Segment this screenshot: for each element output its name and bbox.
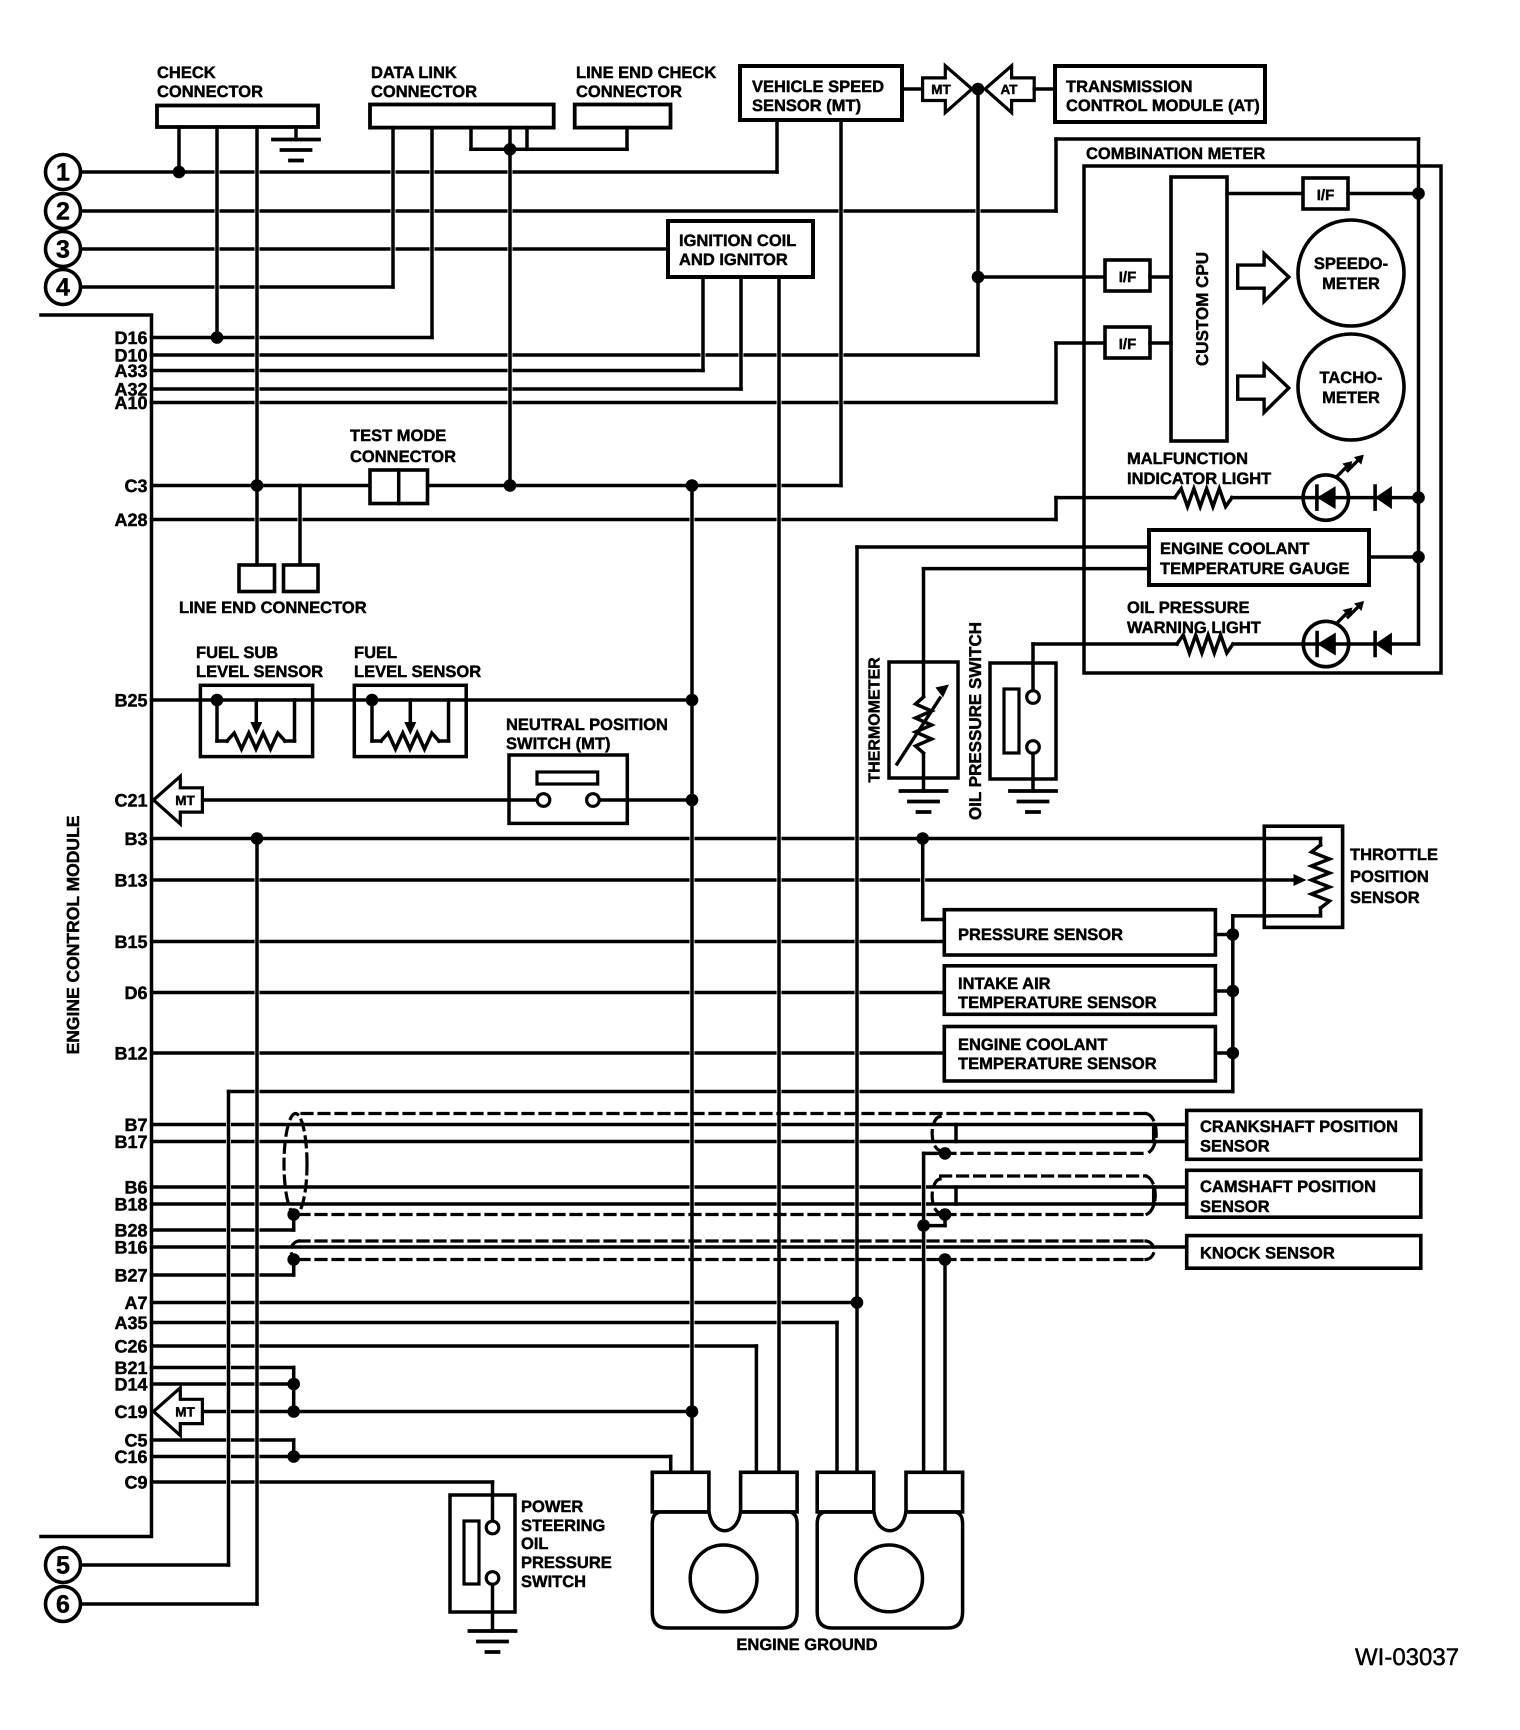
svg-text:CUSTOM CPU: CUSTOM CPU xyxy=(1193,252,1212,366)
component SPEEDOMETER xyxy=(1298,220,1404,326)
svg-text:KNOCK SENSOR: KNOCK SENSOR xyxy=(1200,1245,1335,1263)
wire A10 riser xyxy=(1054,343,1058,403)
component VEHICLE SPEED SENSOR (MT) xyxy=(740,66,902,120)
junction knock shield xyxy=(939,1253,952,1266)
wire B6 xyxy=(152,1185,1187,1189)
pair bar crank right xyxy=(1152,1125,1156,1142)
connector DATA LINK CONNECTOR xyxy=(370,105,554,128)
wire ign pin2 xyxy=(739,277,743,389)
svg-text:B15: B15 xyxy=(114,932,147,952)
wire pressure right stub xyxy=(1215,933,1232,937)
junction C3/ground-chain xyxy=(686,479,699,492)
wire dlc pin3 xyxy=(469,128,473,150)
wire check ground stub xyxy=(294,127,298,140)
connector LINE END 1 xyxy=(239,565,275,592)
arrow wiper (fuel level) xyxy=(409,700,413,722)
wire malfunction light xyxy=(1056,496,1175,500)
arrow wiper (fuel sub) xyxy=(255,700,259,722)
ground (check connector) xyxy=(273,140,319,161)
svg-text:C9: C9 xyxy=(124,1473,147,1493)
wire B15 xyxy=(152,940,945,944)
svg-text:SENSOR (MT): SENSOR (MT) xyxy=(752,97,861,115)
arrow AT (left) xyxy=(985,66,1034,113)
wire oil switch top xyxy=(1031,644,1035,691)
svg-text:TEMPERATURE SENSOR: TEMPERATURE SENSOR xyxy=(958,1055,1157,1073)
svg-text:MT: MT xyxy=(175,1405,195,1420)
terminal lug2 pinA xyxy=(817,1472,874,1512)
svg-text:MT: MT xyxy=(931,82,951,97)
wire shield-ground x=923.6 xyxy=(922,1153,926,1472)
junction fuel-sub input xyxy=(211,694,224,707)
wire B21 xyxy=(152,1366,294,1370)
arrow MT at C21 xyxy=(154,776,203,824)
component THROTTLE POSITION SENSOR box xyxy=(1264,826,1342,927)
wire D6 xyxy=(152,991,945,995)
svg-text:THERMOMETER: THERMOMETER xyxy=(867,657,884,783)
LED malfunction indicator xyxy=(1336,465,1348,477)
wire thermometer riser xyxy=(922,569,926,662)
svg-text:TACHO-: TACHO- xyxy=(1320,369,1383,387)
ENGINE CONTROL MODULE bracket xyxy=(41,315,152,1537)
shield knock bottom dashed xyxy=(299,1258,1146,1261)
pair bar cam right xyxy=(1152,1187,1156,1204)
wire C3 xyxy=(152,484,371,488)
svg-text:D6: D6 xyxy=(124,983,147,1003)
junction C3/dlc xyxy=(504,479,517,492)
svg-text:INDICATOR LIGHT: INDICATOR LIGHT xyxy=(1127,470,1271,488)
junction bus/malfunction xyxy=(1412,491,1425,504)
svg-text:WARNING LIGHT: WARNING LIGHT xyxy=(1127,619,1261,637)
wire if-top left xyxy=(1227,192,1303,196)
svg-text:CAMSHAFT POSITION: CAMSHAFT POSITION xyxy=(1200,1178,1376,1196)
wire tps bottom lead xyxy=(1319,908,1323,916)
resistor (fuel sub) xyxy=(227,733,285,749)
svg-text:B3: B3 xyxy=(124,829,147,849)
svg-text:A10: A10 xyxy=(114,393,147,413)
svg-text:2: 2 xyxy=(56,198,70,226)
component I/F 1 xyxy=(1105,260,1150,291)
node 1 circled xyxy=(46,155,81,190)
svg-text:SWITCH: SWITCH xyxy=(521,1573,586,1591)
engine ground lug 1 xyxy=(652,1512,797,1628)
wire net3 (y=249) xyxy=(81,247,668,251)
shield cam top dashed xyxy=(941,1174,1146,1177)
svg-text:MALFUNCTION: MALFUNCTION xyxy=(1127,450,1248,468)
svg-text:C26: C26 xyxy=(114,1337,147,1357)
diode (oil warning) xyxy=(1373,633,1377,656)
wire B12 xyxy=(152,1051,945,1055)
svg-text:SENSOR: SENSOR xyxy=(1200,1138,1270,1156)
component INTAKE AIR TEMPERATURE SENSOR xyxy=(944,966,1215,1015)
junction vss-if1 xyxy=(972,271,985,284)
junction bus/gauge xyxy=(1412,551,1425,564)
component CUSTOM CPU xyxy=(1171,177,1227,441)
junction C16/C5 xyxy=(287,1450,300,1463)
svg-text:B12: B12 xyxy=(114,1044,147,1064)
contact (oil switch top) xyxy=(1027,691,1040,704)
svg-text:WI-03037: WI-03037 xyxy=(1355,1644,1459,1671)
wire coolant right stub xyxy=(1215,1051,1232,1055)
wire vss pin2 xyxy=(839,120,843,486)
junction B3/branch xyxy=(916,832,929,845)
component FUEL LEVEL SENSOR xyxy=(354,685,466,756)
shield crank right arc xyxy=(1146,1114,1156,1154)
wire ps switch bottom xyxy=(491,1584,495,1631)
diode (malfunction) xyxy=(1375,486,1392,509)
wire gauge-ground chain x=857 xyxy=(855,547,859,1472)
svg-text:I/F: I/F xyxy=(1119,336,1137,353)
svg-text:I/F: I/F xyxy=(1317,187,1335,204)
svg-text:METER: METER xyxy=(1322,275,1380,293)
svg-text:OIL PRESSURE: OIL PRESSURE xyxy=(1127,599,1250,617)
svg-text:DATA LINK: DATA LINK xyxy=(371,64,457,82)
component ENGINE COOLANT TEMPERATURE SENSOR xyxy=(944,1027,1215,1082)
junction sensorbus/intake xyxy=(1227,985,1240,998)
wire dlc pin2 xyxy=(430,128,434,338)
wire B13 xyxy=(152,878,1293,882)
arrow to tachometer xyxy=(1238,365,1289,413)
svg-text:I/F: I/F xyxy=(1119,269,1137,286)
wire check pin1 xyxy=(177,127,181,172)
svg-text:LEVEL SENSOR: LEVEL SENSOR xyxy=(354,663,481,681)
component OIL PRESSURE SWITCH xyxy=(990,663,1056,779)
svg-text:A33: A33 xyxy=(114,361,147,381)
svg-text:TEST MODE: TEST MODE xyxy=(350,427,446,445)
LED malfunction indicator xyxy=(1354,455,1364,465)
svg-text:ENGINE CONTROL MODULE: ENGINE CONTROL MODULE xyxy=(63,816,83,1055)
svg-text:POWER: POWER xyxy=(521,1498,583,1516)
LED oil pressure warning xyxy=(1303,621,1348,666)
svg-text:SENSOR: SENSOR xyxy=(1200,1198,1270,1216)
wire A32 xyxy=(152,387,742,391)
wire B25 xyxy=(152,698,693,702)
junction D14/B21 xyxy=(287,1378,300,1391)
ground (thermometer) xyxy=(901,791,947,812)
arrow MT at C19 xyxy=(154,1388,203,1436)
connector CHECK CONNECTOR xyxy=(157,106,318,128)
resistor (oil warning light) xyxy=(1177,635,1233,653)
wire check pin2 xyxy=(215,127,219,338)
wire vss to MT arrow xyxy=(902,87,923,91)
wire if-top right xyxy=(1348,192,1419,196)
svg-text:LINE END CHECK: LINE END CHECK xyxy=(576,64,716,82)
terminal lug1 pinB xyxy=(741,1472,798,1512)
svg-text:CONNECTOR: CONNECTOR xyxy=(371,83,477,101)
LED malfunction indicator xyxy=(1303,475,1348,520)
wire A35 xyxy=(152,1321,838,1325)
svg-text:ENGINE COOLANT: ENGINE COOLANT xyxy=(958,1036,1107,1054)
shield knock left arc xyxy=(291,1241,299,1260)
wire if1 left xyxy=(978,275,1105,279)
box COMBINATION METER xyxy=(1084,166,1441,673)
component I/F top xyxy=(1303,178,1348,209)
wire net2 riser to meter xyxy=(1054,139,1058,211)
wire net5 riser xyxy=(227,1092,231,1566)
svg-text:C3: C3 xyxy=(124,476,147,496)
svg-text:IGNITION COIL: IGNITION COIL xyxy=(679,232,796,250)
junction bus/if-top xyxy=(1412,187,1425,200)
wire check pin3 xyxy=(255,127,259,565)
wire thermo internal bottom xyxy=(922,755,926,791)
component POWER STEERING OIL PRESSURE SWITCH xyxy=(450,1495,515,1612)
wire net5 feed y=1091.5 xyxy=(229,1090,1233,1094)
wire C26 xyxy=(152,1344,757,1348)
wire gauge right xyxy=(1369,555,1419,559)
component IGNITION COIL AND IGNITOR xyxy=(668,221,813,277)
svg-text:METER: METER xyxy=(1322,389,1380,407)
component CRANKSHAFT POSITION SENSOR xyxy=(1187,1110,1421,1159)
svg-text:AT: AT xyxy=(1001,82,1019,97)
junction C19/ground-chain xyxy=(686,1405,699,1418)
junction MT/AT xyxy=(972,83,985,96)
svg-text:AND IGNITOR: AND IGNITOR xyxy=(679,251,788,269)
wire A10 xyxy=(152,401,1057,405)
component NEUTRAL POSITION SWITCH xyxy=(509,755,627,823)
junction crank shield xyxy=(939,1147,952,1160)
svg-text:4: 4 xyxy=(56,274,70,302)
svg-text:SPEEDO-: SPEEDO- xyxy=(1314,255,1388,273)
junction B3/net6 xyxy=(251,832,264,845)
shield cam bottom dashed xyxy=(299,1213,1146,1216)
wire A28 xyxy=(152,518,1057,522)
svg-text:SENSOR: SENSOR xyxy=(1350,889,1420,907)
LED oil pressure warning xyxy=(1315,633,1319,656)
svg-text:INTAKE AIR: INTAKE AIR xyxy=(958,975,1051,993)
wire dlc pin5 xyxy=(525,128,529,150)
junction D16/check xyxy=(211,331,224,344)
arrow to speedometer xyxy=(1238,254,1289,302)
junction A7/gauge-chain xyxy=(851,1296,864,1309)
wire net1 (y=172) xyxy=(81,170,777,174)
svg-text:OIL PRESSURE SWITCH: OIL PRESSURE SWITCH xyxy=(966,622,985,820)
resistor (fuel level) xyxy=(381,733,439,749)
svg-text:FUEL: FUEL xyxy=(354,644,397,662)
svg-text:POSITION: POSITION xyxy=(1350,868,1429,886)
junction C19/B21 xyxy=(287,1405,300,1418)
svg-text:B13: B13 xyxy=(114,871,147,891)
LED malfunction indicator xyxy=(1348,459,1360,471)
arrow wiper (tps) xyxy=(1294,874,1307,886)
wire B27 xyxy=(152,1273,294,1277)
wire C19 xyxy=(202,1410,692,1414)
wire B7 xyxy=(152,1123,1187,1127)
wire C16 xyxy=(152,1455,671,1459)
wire C5 xyxy=(152,1438,294,1442)
wire line-end riser 2 xyxy=(298,486,302,566)
wire fuel-sub left leg xyxy=(215,700,219,741)
contact (ps top) xyxy=(486,1521,499,1534)
wire tps top lead xyxy=(1319,839,1323,846)
wire A33 xyxy=(152,369,704,373)
contact (neutral right) xyxy=(587,794,600,807)
wire net2 (y=211) xyxy=(81,209,1056,213)
component ENGINE COOLANT TEMPERATURE GAUGE xyxy=(1149,530,1369,585)
svg-text:1: 1 xyxy=(56,159,70,187)
svg-text:CRANKSHAFT POSITION: CRANKSHAFT POSITION xyxy=(1200,1118,1398,1136)
switch plate (neutral) xyxy=(537,772,598,784)
svg-text:OIL: OIL xyxy=(521,1535,549,1553)
connector LINE END 2 xyxy=(284,565,319,592)
junction B27 shield xyxy=(287,1253,300,1266)
svg-text:COMBINATION METER: COMBINATION METER xyxy=(1086,145,1265,163)
wire lecc pin xyxy=(625,128,629,150)
svg-text:B17: B17 xyxy=(114,1132,147,1152)
svg-text:C19: C19 xyxy=(114,1402,147,1422)
wire ignition-to-ground x=779 xyxy=(777,277,781,1472)
wire crank shield tie xyxy=(924,1152,945,1156)
svg-text:MT: MT xyxy=(175,793,195,808)
resistor (throttle position) xyxy=(1312,845,1330,908)
wire thermo internal top xyxy=(922,662,926,695)
LED oil pressure warning xyxy=(1354,601,1364,611)
svg-text:B18: B18 xyxy=(114,1195,147,1215)
wire data-link long drop x=510 xyxy=(508,149,512,485)
svg-text:6: 6 xyxy=(56,1591,70,1619)
LED malfunction indicator xyxy=(1342,461,1352,471)
svg-text:NEUTRAL POSITION: NEUTRAL POSITION xyxy=(506,716,668,734)
shield top dashed (crank) xyxy=(302,1112,1146,1115)
wire gauge upper left xyxy=(857,545,1149,549)
svg-text:CONNECTOR: CONNECTOR xyxy=(576,83,682,101)
connector TEST MODE CONNECTOR xyxy=(370,470,428,504)
junction fuel input xyxy=(366,694,379,707)
svg-text:THROTTLE: THROTTLE xyxy=(1350,846,1438,864)
contact (oil switch bottom) xyxy=(1027,741,1040,754)
wire net6 riser xyxy=(255,839,259,1605)
svg-text:A7: A7 xyxy=(124,1293,147,1313)
junction shield-ground tie xyxy=(917,1219,930,1232)
engine ground lug 1 xyxy=(690,1545,757,1612)
terminal lug1 pinA xyxy=(652,1472,709,1512)
junction net1/check xyxy=(173,166,186,179)
svg-text:LINE END CONNECTOR: LINE END CONNECTOR xyxy=(179,599,367,617)
resistor (thermometer) xyxy=(916,697,932,753)
wire C21 xyxy=(202,798,537,802)
wire oil switch bottom xyxy=(1031,753,1035,791)
wire if1-cpu xyxy=(1150,275,1171,279)
svg-text:A35: A35 xyxy=(114,1313,147,1333)
junction cam shield xyxy=(939,1208,952,1221)
wire net6 (y=1604) xyxy=(81,1602,257,1606)
node 6 circled xyxy=(46,1587,81,1622)
svg-text:TEMPERATURE GAUGE: TEMPERATURE GAUGE xyxy=(1160,560,1349,578)
wire fuel left leg xyxy=(370,700,374,741)
wire fuel right leg xyxy=(439,739,449,743)
wire fuel-sub right leg xyxy=(285,739,295,743)
svg-text:C16: C16 xyxy=(114,1447,147,1467)
LED oil pressure warning xyxy=(1337,612,1349,624)
contact (ps bottom) xyxy=(486,1572,499,1585)
wire if2-cpu xyxy=(1150,341,1171,345)
wire dlc pin1 xyxy=(391,128,395,287)
svg-text:TRANSMISSION: TRANSMISSION xyxy=(1066,78,1193,96)
wire meter top feed y=139 xyxy=(1056,137,1419,141)
switch plate (power steering) xyxy=(464,1521,479,1584)
wire meter bus x=1418.5 xyxy=(1417,139,1421,644)
junction sensorbus/pressure xyxy=(1227,928,1240,941)
svg-text:ENGINE GROUND: ENGINE GROUND xyxy=(736,1636,877,1654)
svg-text:VEHICLE SPEED: VEHICLE SPEED xyxy=(752,78,884,96)
wire D14 xyxy=(152,1382,294,1386)
shield cam left arc xyxy=(932,1179,940,1213)
resistor (malfunction light) xyxy=(1175,489,1232,507)
node 5 circled xyxy=(46,1548,81,1583)
engine ground lug 2 xyxy=(856,1545,923,1612)
svg-text:3: 3 xyxy=(56,236,70,264)
engine ground lug 2 xyxy=(817,1512,962,1628)
node 2 circled xyxy=(46,194,81,229)
svg-text:PRESSURE: PRESSURE xyxy=(521,1554,612,1572)
wire B3 branch x=922.7 xyxy=(921,839,925,920)
wire gauge lower left xyxy=(924,567,1150,571)
component CAMSHAFT POSITION SENSOR xyxy=(1187,1170,1421,1217)
component TACHOMETER xyxy=(1298,334,1404,440)
junction B25/ground-chain xyxy=(686,694,699,707)
component I/F 2 xyxy=(1105,327,1150,358)
junction C21/ground-chain xyxy=(686,794,699,807)
wire knock-shield ground x=945 xyxy=(943,1260,947,1473)
wire ground chain x=692 xyxy=(690,486,694,1473)
svg-text:B25: B25 xyxy=(114,691,147,711)
wire if2 left xyxy=(1056,341,1105,345)
svg-text:B27: B27 xyxy=(114,1266,147,1286)
ground (power steering switch) xyxy=(470,1631,516,1652)
LED oil pressure warning xyxy=(1348,605,1360,617)
LED oil pressure warning xyxy=(1343,608,1353,618)
LED malfunction indicator xyxy=(1317,486,1336,509)
LED malfunction indicator xyxy=(1315,486,1319,509)
svg-text:B16: B16 xyxy=(114,1238,147,1258)
component TRANSMISSION CONTROL MODULE (AT) xyxy=(1055,66,1265,122)
wire at-tcm xyxy=(1034,87,1055,91)
wire cam shield tie xyxy=(943,1215,947,1226)
svg-text:ENGINE COOLANT: ENGINE COOLANT xyxy=(1160,540,1309,558)
LED oil pressure warning xyxy=(1317,633,1336,656)
wire dlc pin4 xyxy=(508,128,512,150)
node 4 circled xyxy=(46,270,81,305)
svg-text:C21: C21 xyxy=(114,791,147,811)
shield crank bottom dashed xyxy=(945,1152,1146,1155)
svg-text:PRESSURE SENSOR: PRESSURE SENSOR xyxy=(958,926,1123,944)
svg-text:5: 5 xyxy=(56,1552,70,1580)
wire D16 xyxy=(152,336,433,340)
svg-text:FUEL SUB: FUEL SUB xyxy=(196,644,278,662)
wire B16 xyxy=(152,1245,1187,1249)
terminal lug2 pinB xyxy=(906,1472,963,1512)
node 3 circled xyxy=(46,232,81,267)
shield cam right arc xyxy=(1146,1176,1155,1215)
junction B28 shield xyxy=(287,1208,300,1221)
svg-text:CONNECTOR: CONNECTOR xyxy=(350,448,456,466)
wire D10 xyxy=(152,353,979,357)
wire B3 xyxy=(152,837,1321,841)
wire B18 xyxy=(152,1202,1187,1206)
connector LINE END CHECK CONNECTOR xyxy=(575,105,671,128)
component KNOCK SENSOR xyxy=(1187,1236,1421,1269)
svg-text:SWITCH (MT): SWITCH (MT) xyxy=(506,735,610,753)
wire intake right stub xyxy=(1215,989,1232,993)
arrow (variable, thermometer) xyxy=(897,698,940,764)
wire vss pin1 xyxy=(775,120,779,172)
wire net5 (y=1565) xyxy=(81,1563,229,1567)
diode (oil warning) xyxy=(1375,633,1392,656)
wire sensor bus x=1232.8 xyxy=(1231,916,1235,1092)
svg-text:CONNECTOR: CONNECTOR xyxy=(157,83,263,101)
svg-text:STEERING: STEERING xyxy=(521,1517,605,1535)
shield knock right arc xyxy=(1146,1241,1154,1260)
arrow MT (right) xyxy=(923,66,972,113)
svg-text:LEVEL SENSOR: LEVEL SENSOR xyxy=(196,663,323,681)
